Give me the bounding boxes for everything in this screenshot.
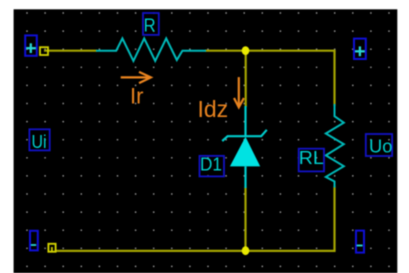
svg-text:Ui: Ui [32, 132, 47, 152]
pin bottom-left [48, 244, 55, 252]
svg-text:Uo: Uo [369, 137, 392, 157]
label Ir [130, 83, 143, 108]
label Ui [29, 129, 49, 152]
wire middle vertical upper [245, 51, 247, 107]
svg-text:R: R [144, 16, 156, 36]
label RL [299, 148, 324, 172]
label R [143, 13, 159, 36]
svg-text:D1: D1 [200, 155, 222, 175]
svg-text:Ir: Ir [130, 83, 143, 108]
resistor R [96, 38, 206, 61]
svg-text:RL: RL [299, 148, 324, 168]
label D1 [200, 155, 225, 177]
label Idz [198, 96, 229, 122]
wire top-left segment [44, 50, 97, 52]
current arrow Ir [121, 72, 151, 83]
junction bottom [242, 246, 250, 255]
svg-text:Idz: Idz [198, 96, 229, 122]
wire bottom segment [55, 250, 336, 252]
current arrow Idz [234, 77, 244, 107]
terminal V+ top-left [25, 35, 37, 55]
terminal minus bottom-right [356, 231, 364, 253]
terminal minus bottom-left [30, 231, 38, 251]
wire top-right segment [205, 50, 336, 52]
wire right vertical upper [333, 51, 335, 106]
zener diode D1 [222, 106, 267, 188]
junction top [242, 46, 250, 55]
resistor RL [326, 104, 344, 188]
pin top-left [40, 47, 48, 55]
wire middle vertical lower [244, 187, 246, 251]
terminal V+ top-right [354, 39, 366, 59]
label Uo [366, 134, 393, 157]
wire right vertical lower [333, 186, 335, 251]
